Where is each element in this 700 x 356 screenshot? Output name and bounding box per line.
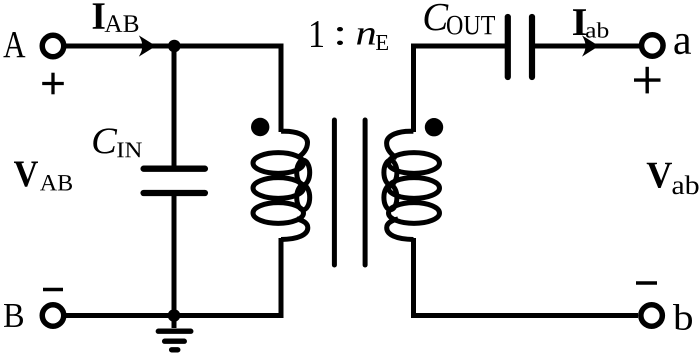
minus sign right — [636, 281, 657, 284]
node junction dot top — [168, 40, 181, 53]
label I of I_AB — [93, 3, 105, 28]
capacitor C_OUT — [508, 17, 532, 77]
arrow I_AB — [141, 38, 155, 55]
label E sub — [376, 35, 388, 50]
wire C_IN upper lead — [172, 46, 177, 166]
label IN of C_IN — [117, 143, 142, 158]
minus sign left — [43, 288, 63, 291]
transformer primary polarity dot — [251, 118, 269, 136]
label C of C_IN — [93, 128, 117, 153]
wire C_OUT to terminal a — [535, 44, 640, 49]
wire primary bottom lead — [279, 238, 284, 316]
node junction dot bottom (ground node) — [168, 309, 181, 322]
wire ground lead — [172, 316, 177, 329]
ground — [158, 331, 191, 350]
label ab of I_ab — [586, 22, 608, 38]
wire B to primary bottom — [66, 313, 284, 318]
label b — [673, 304, 692, 330]
label a — [674, 34, 691, 54]
label n — [357, 28, 375, 45]
transformer secondary polarity dot — [425, 118, 443, 136]
wire A to junction to primary top corner — [66, 46, 281, 132]
terminal B — [42, 305, 64, 327]
label 1 — [311, 21, 323, 47]
label AB of V_AB — [40, 175, 72, 190]
wire secondary top lead to C_OUT — [414, 46, 506, 132]
transformer secondary winding — [384, 131, 440, 239]
plus sign left — [42, 73, 64, 95]
label AB of I_AB — [105, 15, 139, 32]
arrow I_ab — [584, 38, 598, 55]
label V of V_AB — [14, 161, 38, 186]
transformer primary winding — [253, 131, 310, 239]
terminal a — [642, 35, 664, 57]
label V of V_ab — [647, 163, 672, 188]
label I of I_ab — [573, 9, 586, 35]
transformer core — [334, 120, 365, 265]
terminal A — [42, 35, 64, 57]
capacitor C_IN — [144, 169, 205, 193]
label B — [4, 304, 23, 327]
label C of C_OUT — [425, 4, 449, 31]
label OUT of C_OUT — [447, 16, 495, 35]
terminal b — [641, 305, 663, 327]
label ab of V_ab — [672, 175, 698, 194]
wire C_IN lower lead — [172, 196, 177, 316]
plus sign right — [634, 67, 661, 94]
label colon — [337, 27, 343, 45]
label A — [3, 32, 25, 57]
wire secondary bottom to terminal b — [414, 238, 639, 316]
